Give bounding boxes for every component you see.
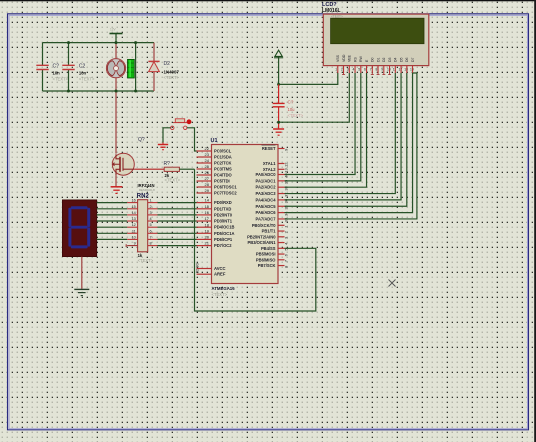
svg-text:PB2/INT2/AIN0: PB2/INT2/AIN0: [247, 234, 276, 239]
wire RN2 pin 1 to PD0: [158, 202, 197, 204]
wire 7seg segment d to RN2: [97, 220, 128, 222]
wire LCD D6 to PA5: [285, 73, 407, 206]
svg-text:32: 32: [195, 268, 200, 273]
svg-text:25: 25: [205, 164, 210, 169]
svg-text:PC0/SCL: PC0/SCL: [214, 149, 232, 154]
wire RN2 pin 4 to PD3: [158, 220, 197, 222]
wire RN2 pin 8 to PD7: [158, 245, 197, 247]
7-segment display: [62, 200, 96, 257]
svg-text:33: 33: [284, 217, 289, 222]
svg-text:C2: C2: [79, 64, 86, 70]
wire 7seg segment f to RN2: [97, 232, 128, 234]
wire button to ground: [163, 128, 171, 143]
svg-text:AREF: AREF: [214, 272, 226, 277]
svg-text:PB3/OC0/AIN1: PB3/OC0/AIN1: [248, 240, 277, 245]
svg-text:D2: D2: [382, 57, 386, 62]
svg-text:17: 17: [205, 216, 210, 221]
U1 pin 25 PC3/TMS: [197, 168, 212, 170]
U1 pin 8 PB7/SCK: [278, 265, 285, 267]
svg-text:PC1/SDA: PC1/SDA: [214, 155, 232, 160]
wire 7seg segment c to RN2: [97, 214, 128, 216]
svg-text:13: 13: [284, 168, 289, 173]
svg-text:RESPACK-8: RESPACK-8: [139, 188, 155, 192]
U1 pin 9 RESET: [278, 148, 285, 150]
RN2 pin 1 (right): [148, 202, 158, 204]
RN2 pin 15 (left): [127, 208, 137, 210]
junction: [115, 41, 118, 44]
svg-text:5: 5: [150, 223, 152, 227]
svg-text:13: 13: [404, 68, 408, 72]
LCD pin 10 stub end: [388, 73, 391, 75]
wire inner vertical branch: [135, 43, 137, 91]
LCD LM016L body: [323, 14, 429, 66]
U1 pin 23 PC1/SDA: [197, 156, 212, 158]
svg-text:24: 24: [205, 158, 210, 163]
motor M1: [106, 59, 125, 78]
svg-text:3: 3: [347, 68, 349, 72]
svg-text:10n: 10n: [53, 71, 61, 76]
svg-text:D7: D7: [411, 57, 415, 62]
svg-text:15: 15: [132, 205, 136, 209]
svg-text:PD3/INT1: PD3/INT1: [214, 219, 233, 224]
wire motor top lead: [115, 43, 117, 59]
power symbol (LCD supply arrow): [274, 50, 283, 84]
IC U1 (ATMEGA16 microcontroller): [212, 145, 279, 284]
U1 pin 1 PB0/XCK/T0: [278, 224, 285, 226]
RN2 pin 7 (right): [148, 238, 158, 240]
svg-text:VDD: VDD: [342, 54, 346, 62]
capacitor C2: [62, 65, 74, 69]
resistor network RN2: [138, 200, 148, 252]
U1 pin 7 PB6/MISO: [278, 259, 285, 261]
svg-text:PA0/ADC0: PA0/ADC0: [256, 172, 277, 177]
svg-text:22: 22: [205, 146, 210, 151]
U1 pin 4 PB3/OC0/AIN1: [278, 242, 285, 244]
wire C1 bottom lead: [42, 70, 44, 92]
svg-text:U1: U1: [211, 138, 218, 144]
svg-text:12V: 12V: [110, 28, 117, 32]
junction (C3 top node): [277, 83, 280, 86]
U1 pin 3 PB2/INT2/AIN0: [278, 236, 285, 238]
wire LCD D4 to PA3: [285, 73, 396, 194]
svg-text:12: 12: [398, 68, 402, 72]
wire LCD RS to PA0: [285, 73, 356, 175]
svg-text:PB7/SCK: PB7/SCK: [258, 263, 276, 268]
svg-text:18: 18: [205, 222, 210, 227]
svg-text:21: 21: [205, 241, 210, 246]
svg-text:RS: RS: [353, 56, 357, 62]
junction: [67, 90, 70, 93]
wire LCD D7 to PA6: [285, 73, 413, 213]
svg-text:16: 16: [205, 210, 210, 215]
RN2 pin 9 (left): [126, 244, 137, 247]
svg-text:PA2/ADC2: PA2/ADC2: [256, 185, 277, 190]
svg-text:35: 35: [284, 204, 289, 209]
svg-text:13: 13: [132, 217, 136, 221]
svg-text:C?: C?: [53, 64, 60, 70]
wire Q1 source to ground: [115, 175, 117, 186]
svg-text:<TEXT>: <TEXT>: [165, 177, 181, 182]
U1 pin 22 PC0/SCL: [197, 150, 212, 152]
U1 pin 6 PB5/MOSI: [278, 253, 285, 255]
svg-text:C?: C?: [288, 100, 294, 105]
wire LCD VEE to ground node: [279, 73, 350, 122]
svg-text:PD6/ICP1: PD6/ICP1: [214, 237, 233, 242]
junction (C3 bottom node): [277, 121, 280, 124]
svg-text:5: 5: [358, 68, 360, 72]
svg-text:11: 11: [132, 229, 136, 233]
svg-text:<TEXT>: <TEXT>: [138, 258, 154, 263]
U1 pin 19 PD5/OC1A: [197, 232, 212, 234]
wire RN2 pin 7 to PD6: [158, 238, 197, 240]
U1 pin 21 PD7/OC2: [197, 245, 212, 247]
svg-text:6: 6: [364, 68, 366, 72]
svg-text:D0: D0: [371, 57, 375, 62]
svg-text:ATMEGA16: ATMEGA16: [212, 286, 236, 291]
wire RN2 pin 2 to PD1: [158, 208, 197, 210]
svg-text:12: 12: [132, 223, 136, 227]
U1 pin 30 AVCC: [197, 268, 212, 270]
svg-text:PB1/T1: PB1/T1: [262, 229, 277, 234]
svg-text:15: 15: [205, 204, 210, 209]
RN2 pin 16 (left): [127, 202, 137, 204]
svg-text:37: 37: [284, 192, 289, 197]
svg-text:29: 29: [205, 188, 210, 193]
U1 pin 29 PC7/TOSC2: [197, 192, 212, 194]
wire LCD VSS to C3 top: [279, 73, 338, 84]
svg-text:4: 4: [352, 68, 354, 72]
U1 pin 17 PD3/INT1: [197, 220, 212, 222]
svg-text:36: 36: [284, 198, 289, 203]
svg-text:PB6/MISO: PB6/MISO: [256, 257, 276, 262]
svg-text:LCD?: LCD?: [322, 2, 337, 8]
svg-text:PA7/ADC7: PA7/ADC7: [256, 216, 277, 221]
RN2 pin 14 (left): [127, 214, 137, 216]
ground (7seg common): [74, 289, 89, 295]
svg-text:VSS: VSS: [336, 54, 340, 62]
svg-text:PA3/ADC3: PA3/ADC3: [256, 191, 277, 196]
U1 pin 20 PD6/ICP1: [197, 238, 212, 240]
U1 pin 37 PA3/ADC3: [278, 193, 285, 195]
svg-text:9: 9: [134, 242, 136, 246]
U1 pin 40 PA0/ADC0: [278, 174, 285, 176]
wire button to PC0: [187, 128, 197, 151]
svg-text:14: 14: [132, 211, 136, 215]
svg-text:1N4007: 1N4007: [164, 70, 180, 75]
svg-text:PA5/ADC5: PA5/ADC5: [256, 204, 277, 209]
U1 pin 24 PC2/TCK: [197, 162, 212, 164]
svg-text:D2: D2: [164, 61, 171, 67]
wire LCD D7 to PA7: [285, 73, 417, 219]
svg-text:1: 1: [150, 199, 152, 203]
U1 pin 36 PA4/ADC4: [278, 199, 285, 201]
svg-text:PB4/SS: PB4/SS: [261, 246, 276, 251]
svg-text:10u: 10u: [288, 107, 296, 112]
wire RN2 pin 3 to PD2: [158, 214, 197, 216]
svg-text:40: 40: [284, 173, 289, 178]
svg-text:8: 8: [375, 68, 377, 72]
RN2 pin 2 (right): [148, 208, 158, 210]
LCD pin 2 stub end: [342, 73, 345, 75]
svg-text:10n: 10n: [79, 71, 87, 76]
svg-text:PC6/TOSC1: PC6/TOSC1: [214, 185, 237, 190]
svg-text:XTAL1: XTAL1: [263, 161, 276, 166]
U1 pin 14 PD0/RXD: [197, 202, 212, 204]
svg-text:30: 30: [195, 262, 200, 267]
wire D2 anode lead: [153, 72, 155, 91]
svg-text:39: 39: [284, 179, 289, 184]
transistor Q1 (MOSFET): [112, 153, 134, 175]
svg-text:28: 28: [205, 182, 210, 187]
svg-text:6: 6: [150, 229, 152, 233]
svg-text:2: 2: [150, 205, 152, 209]
RN2 pin 10 (left): [127, 238, 137, 240]
U1 pin 15 PD1/TXD: [197, 208, 212, 210]
svg-text:D6: D6: [405, 57, 409, 62]
wire motor bottom lead to Q1 drain: [115, 78, 117, 154]
wire LCD E to PA2: [285, 73, 367, 187]
U1 pin 26 PC4/TDO: [197, 174, 212, 176]
svg-text:7: 7: [370, 68, 372, 72]
marker X: [389, 280, 396, 287]
svg-text:RW: RW: [359, 56, 363, 62]
svg-text:<TEXT>: <TEXT>: [212, 292, 228, 297]
LCD pin 8 stub end: [377, 73, 380, 75]
ground (button): [158, 143, 168, 150]
RN2 pin 5 (right): [148, 226, 158, 228]
U1 pin 12 XTAL1: [278, 163, 285, 165]
svg-text:PD7/OC2: PD7/OC2: [214, 243, 232, 248]
svg-text:2: 2: [341, 68, 343, 72]
RN2 pin 8 (right): [148, 245, 158, 247]
wire 7seg segment g to RN2: [97, 238, 128, 240]
svg-text:9: 9: [381, 68, 383, 72]
svg-text:RN2: RN2: [137, 194, 150, 200]
U1 pin 27 PC5/TDI: [197, 180, 212, 182]
motor speed indicator bar: [128, 59, 135, 78]
svg-text:PC5/TDI: PC5/TDI: [214, 179, 230, 184]
svg-text:PC3/TMS: PC3/TMS: [214, 167, 232, 172]
U1 pin 38 PA2/ADC2: [278, 186, 285, 188]
wire Q1 gate to R1: [134, 168, 164, 170]
RN2 pin 6 (right): [148, 232, 158, 234]
svg-text:PB0/XCK/T0: PB0/XCK/T0: [252, 223, 276, 228]
svg-text:PC7/TOSC2: PC7/TOSC2: [214, 191, 237, 196]
wire: motor supply loop bottom rail: [43, 90, 155, 92]
junction: [67, 41, 70, 44]
LCD pin 7 stub end: [371, 73, 374, 75]
svg-text:PD2/INT0: PD2/INT0: [214, 212, 233, 217]
ground (C3): [273, 129, 284, 135]
wire C1 top lead: [42, 43, 44, 66]
svg-text:PB5/MOSI: PB5/MOSI: [256, 252, 276, 257]
power symbol +V: [110, 34, 123, 43]
svg-text:14: 14: [205, 198, 210, 203]
svg-text:3: 3: [150, 211, 152, 215]
LCD pin 9 stub end: [382, 73, 385, 75]
svg-text:PD4/OC1B: PD4/OC1B: [214, 225, 235, 230]
svg-text:PD0/RXD: PD0/RXD: [214, 200, 232, 205]
svg-text:8: 8: [150, 242, 152, 246]
svg-text:<TEXT>: <TEXT>: [288, 113, 304, 118]
svg-text:14: 14: [410, 68, 414, 72]
svg-text:7: 7: [150, 235, 152, 239]
wire C2 bottom lead: [68, 70, 70, 92]
wire D2 cathode lead: [153, 43, 155, 62]
wire RN2 pin 5 to PD4: [158, 226, 197, 228]
wire C3 bottom lead: [278, 107, 280, 129]
U1 pin 13 XTAL2: [278, 168, 285, 170]
junction: [134, 41, 137, 44]
wire 7seg segment e to RN2: [97, 226, 128, 228]
svg-text:PD1/TXD: PD1/TXD: [214, 206, 231, 211]
wire R1 to PWM loop: [179, 168, 194, 170]
U1 pin 39 PA1/ADC1: [278, 180, 285, 182]
svg-text:PC4/TDO: PC4/TDO: [214, 173, 233, 178]
wire 7seg segment b to RN2: [97, 208, 128, 210]
svg-text:19: 19: [205, 228, 210, 233]
U1 pin 33 PA7/ADC7: [278, 218, 285, 220]
svg-text:27: 27: [205, 176, 210, 181]
wire LCD D5 to PA4: [285, 73, 402, 200]
svg-text:D1: D1: [376, 57, 380, 62]
wire 7seg segment a to RN2: [97, 202, 128, 204]
svg-text:D3: D3: [388, 57, 392, 62]
svg-text:VEE: VEE: [348, 54, 352, 62]
svg-text:23: 23: [205, 152, 210, 157]
svg-text:D5: D5: [399, 57, 403, 62]
svg-text:4: 4: [150, 217, 152, 221]
LCD screen: [331, 18, 424, 44]
RN2 pin 11 (left): [127, 232, 137, 234]
wire: motor supply loop top rail: [43, 42, 155, 44]
U1 pin 34 PA6/ADC6: [278, 212, 285, 214]
wire C2 top lead: [68, 43, 70, 66]
svg-text:AVCC: AVCC: [214, 266, 226, 271]
wire PWM loop to PB4: [195, 169, 316, 311]
svg-text:12: 12: [284, 162, 289, 167]
U1 pin 18 PD4/OC1B: [197, 226, 212, 228]
svg-text:<TEXT>: <TEXT>: [53, 77, 69, 82]
capacitor C1: [36, 65, 48, 69]
svg-text:PD5/OC1A: PD5/OC1A: [214, 231, 235, 236]
U1 pin 32 AREF: [197, 273, 212, 275]
wire LCD RW to PA1: [285, 73, 361, 181]
U1 pin 16 PD2/INT0: [197, 214, 212, 216]
svg-text:R?: R?: [164, 161, 171, 167]
U1 pin 28 PC6/TOSC1: [197, 186, 212, 188]
svg-text:34: 34: [284, 211, 289, 216]
RN2 pin 3 (right): [148, 214, 158, 216]
svg-text:RESET: RESET: [262, 146, 276, 151]
capacitor C3: [273, 103, 285, 106]
U1 pin 35 PA5/ADC5: [278, 205, 285, 207]
RN2 pin 12 (left): [127, 226, 137, 228]
svg-text:26: 26: [205, 170, 210, 175]
wire 7seg common to ground: [81, 257, 83, 289]
svg-text:20: 20: [205, 235, 210, 240]
svg-text:1: 1: [335, 68, 337, 72]
RN2 pin 13 (left): [127, 220, 137, 222]
junction: [134, 90, 137, 93]
wire C3 top lead: [278, 84, 280, 103]
resistor R1: [164, 167, 179, 171]
svg-text:PA6/ADC6: PA6/ADC6: [256, 210, 277, 215]
svg-text:10: 10: [387, 68, 391, 72]
RN2 pin 4 (right): [148, 220, 158, 222]
svg-text:10: 10: [132, 235, 136, 239]
ground (Q1 source): [111, 187, 123, 194]
junction: [115, 90, 118, 93]
wire RN2 pin 6 to PD5: [158, 232, 197, 234]
svg-text:<TEXT>: <TEXT>: [164, 75, 180, 80]
U1 pin 2 PB1/T1: [278, 230, 285, 232]
svg-text:<TEXT>: <TEXT>: [79, 77, 95, 82]
push button: [171, 119, 192, 130]
U1 pin 5 PB4/SS: [278, 247, 285, 249]
svg-text:D4: D4: [394, 57, 398, 62]
svg-text:Q?: Q?: [138, 137, 145, 143]
svg-text:LM016L: LM016L: [322, 8, 341, 14]
svg-text:PA1/ADC1: PA1/ADC1: [256, 178, 277, 183]
svg-text:38: 38: [284, 185, 289, 190]
diode D2: [148, 61, 159, 71]
svg-text:PA4/ADC4: PA4/ADC4: [256, 197, 277, 202]
svg-text:16: 16: [132, 199, 136, 203]
svg-text:PC2/TCK: PC2/TCK: [214, 161, 232, 166]
